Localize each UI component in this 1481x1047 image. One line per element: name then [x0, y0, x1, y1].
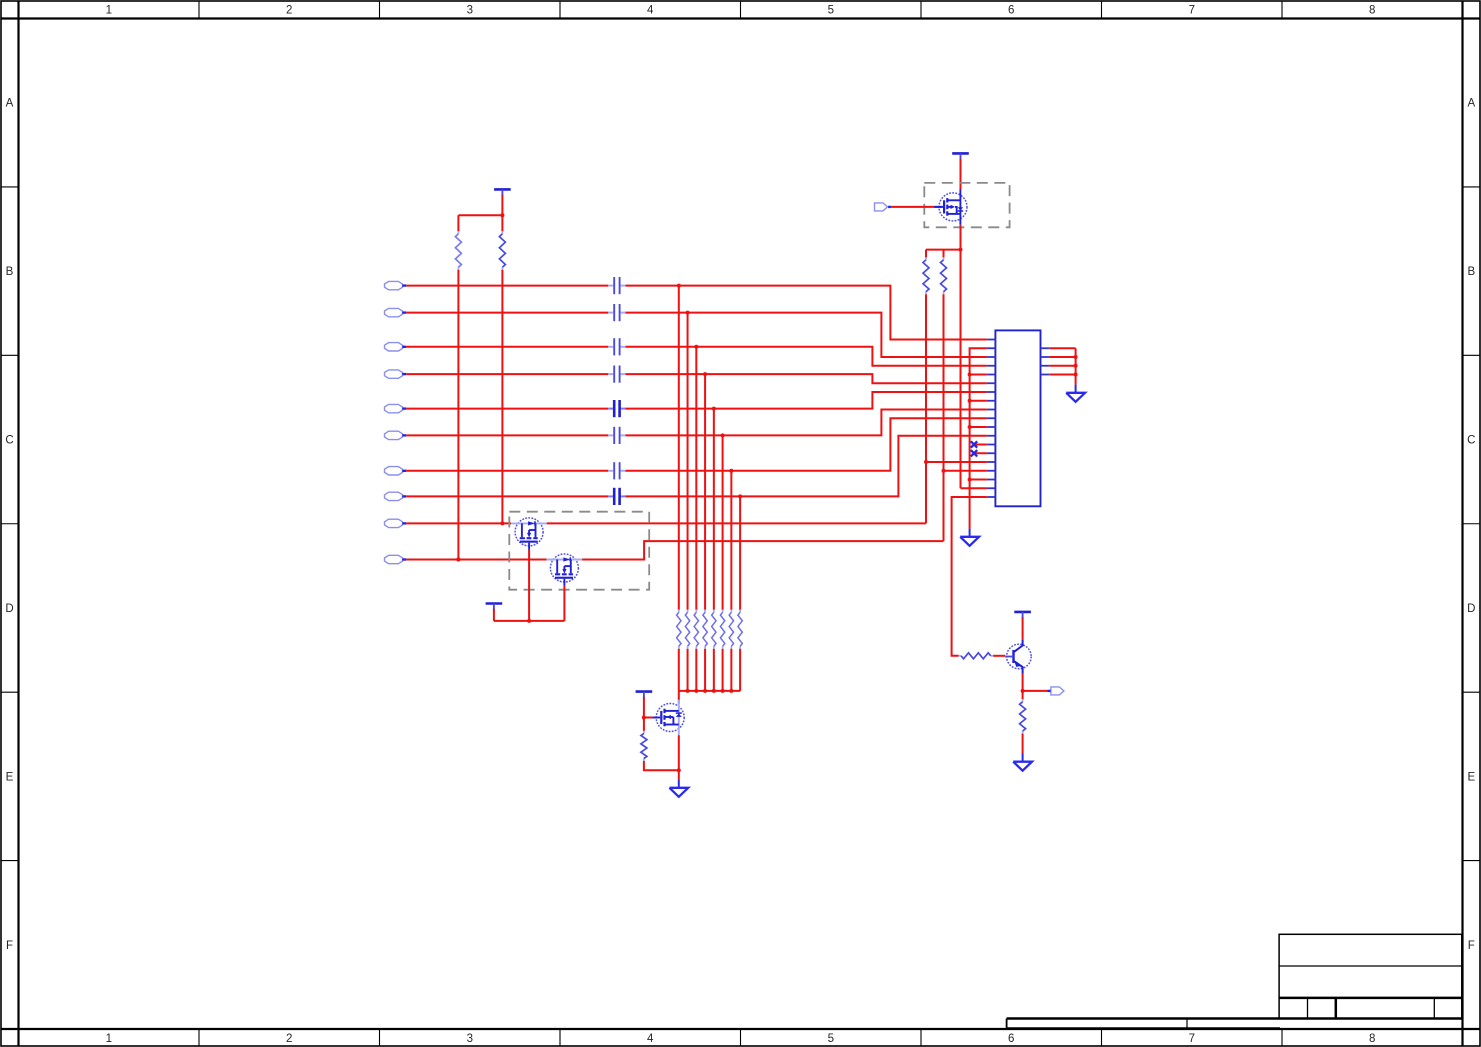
- wire R8 to bus: [687, 649, 689, 691]
- junction row6/pulldown: [721, 433, 725, 437]
- wire flag to Q1 gate: [891, 206, 942, 208]
- wire IC right pins to gnd bus: [1049, 347, 1075, 349]
- wire pin14 stub: [976, 452, 987, 454]
- svg-text:5: 5: [828, 5, 834, 17]
- wire R4 to pin16 riser: [943, 294, 945, 541]
- port J10: [385, 555, 403, 563]
- resistor R8: [687, 610, 689, 613]
- wire row3 pulldown drop: [695, 347, 697, 610]
- mosfet Q1: [939, 193, 967, 221]
- svg-text:1: 1: [106, 1033, 112, 1045]
- ground GND2: [969, 529, 971, 537]
- wire pin11 stub to gnd bus: [970, 426, 987, 428]
- junction row7/pulldown: [729, 469, 733, 473]
- junction bus col3: [694, 689, 698, 693]
- wire row8 to IC pin 12: [626, 436, 987, 497]
- wire pin13 stub: [976, 444, 987, 446]
- resistor R9: [695, 610, 697, 613]
- port J2: [385, 308, 403, 316]
- wire VCC1 stem: [501, 195, 503, 216]
- junction right bus pin3: [1074, 355, 1078, 359]
- svg-text:F: F: [1468, 940, 1475, 952]
- wire to R4: [943, 250, 945, 258]
- wire row2 to cap: [406, 312, 608, 314]
- wire VCC3 to Q1 drain: [960, 159, 962, 190]
- wire to R15: [643, 718, 645, 731]
- capacitor C7: [608, 470, 613, 472]
- wire emitter to flag: [1023, 690, 1048, 692]
- wire to R2: [501, 215, 503, 231]
- wire row8 to cap: [406, 495, 608, 497]
- svg-text:1: 1: [106, 5, 112, 17]
- wire Q2 emitter down: [1022, 674, 1024, 691]
- power bar VCC1: [494, 188, 511, 191]
- wire row4 pulldown drop: [704, 374, 706, 610]
- resistor R15: [643, 731, 645, 734]
- wire to R1: [457, 215, 459, 231]
- wire row6 to cap: [406, 434, 608, 436]
- port J6: [385, 431, 403, 439]
- svg-text:A: A: [6, 98, 14, 110]
- port J3: [385, 343, 403, 351]
- svg-text:3: 3: [467, 5, 473, 17]
- junction right bus pin4: [1074, 364, 1078, 368]
- svg-text:2: 2: [286, 1033, 292, 1045]
- wire pin8 stub to gnd bus: [970, 400, 987, 402]
- svg-text:D: D: [5, 603, 13, 615]
- wire row5 to cap: [406, 408, 608, 410]
- wire R5 to Q2 base: [993, 655, 1005, 657]
- port J8: [385, 492, 403, 500]
- output flag J12: [1051, 687, 1064, 695]
- junction row4/pulldown: [703, 372, 707, 376]
- wire row10 right segment: [582, 541, 944, 559]
- wire right gnd bus: [1075, 348, 1077, 384]
- wire row7 pulldown drop: [730, 471, 732, 610]
- svg-text:A: A: [1467, 98, 1475, 110]
- wire row5 pulldown drop: [713, 409, 715, 610]
- wire row6 pulldown drop: [722, 435, 724, 609]
- wire R6 to ground: [1022, 734, 1024, 754]
- wire pin16 stub: [944, 470, 987, 472]
- wire gate node to M3: [644, 717, 653, 719]
- wire R13 to bus: [730, 649, 732, 691]
- wire pin17 stub to gnd bus: [970, 479, 987, 481]
- junction emitter node: [1021, 689, 1025, 693]
- resistor R3: [925, 257, 927, 260]
- wire pin15 stub: [926, 461, 987, 463]
- junction bus col7: [729, 689, 733, 693]
- wire R2 to row9: [501, 270, 503, 524]
- junction row10/R1 mark: [456, 558, 460, 562]
- wire VCC4 to Q2 collector: [1022, 617, 1024, 639]
- resistor R5: [959, 655, 962, 657]
- resistor R6: [1022, 699, 1024, 702]
- wire pulldown bus: [679, 690, 740, 692]
- no-connect X pin14: [971, 450, 977, 456]
- wire M1 gate down: [528, 549, 530, 621]
- junction row8/pulldown: [738, 494, 742, 498]
- wire row1 to IC pin 1: [626, 286, 987, 340]
- svg-text:8: 8: [1369, 5, 1375, 17]
- dashed box level shifter: [509, 512, 649, 590]
- wire pin5 stub to gnd bus: [970, 374, 987, 376]
- wire pin2 gnd bus: [970, 348, 987, 528]
- wire row5 to IC pin 7: [626, 392, 987, 409]
- svg-text:8: 8: [1369, 1033, 1375, 1045]
- wire row3 to IC pin 4: [626, 347, 987, 366]
- wire R12 to bus: [722, 649, 724, 691]
- junction M1 gate/rail: [527, 619, 531, 623]
- svg-text:C: C: [5, 435, 13, 447]
- junction gnd bus pin11: [968, 425, 972, 429]
- junction row2/pulldown: [686, 311, 690, 315]
- resistor R4: [943, 257, 945, 260]
- port J4: [385, 370, 403, 378]
- capacitor C6: [608, 434, 613, 436]
- svg-text:B: B: [6, 266, 14, 278]
- IC U1 left pin stubs: [987, 340, 996, 498]
- wire R14 to bus: [739, 649, 741, 691]
- wire row1 to cap: [406, 285, 608, 287]
- wire row7 to cap: [406, 470, 608, 472]
- capacitor C8: [608, 495, 613, 497]
- wire VCC1 branch left: [458, 214, 502, 216]
- resistor R14: [739, 610, 741, 613]
- ground GND3: [1022, 754, 1024, 762]
- revision strip box: [1006, 1019, 1008, 1028]
- wire M3 source down: [678, 735, 680, 779]
- resistor R2: [501, 231, 503, 234]
- wire row6 to IC pin 9: [626, 410, 987, 436]
- junction Q1 source split: [959, 248, 963, 252]
- ground GND1: [1075, 385, 1077, 393]
- resistor R11: [713, 610, 715, 613]
- gate flag J11: [875, 203, 888, 211]
- resistor R7: [678, 610, 680, 613]
- capacitor C1: [608, 285, 613, 287]
- capacitor C4: [608, 373, 613, 375]
- junction M3 source/R15: [677, 768, 681, 772]
- wire bus to M3 drain: [678, 691, 680, 704]
- capacitor C2: [608, 312, 613, 314]
- svg-text:6: 6: [1008, 5, 1014, 17]
- wire R3 to pin15 riser: [925, 294, 927, 523]
- junction gnd bus pin17: [968, 478, 972, 482]
- wire to R3: [925, 250, 927, 258]
- wire Q1 source down: [960, 225, 962, 489]
- wire row10 left segment: [406, 559, 546, 561]
- wire to R6: [1022, 691, 1024, 699]
- wire VCC2 stem to rail: [493, 609, 495, 621]
- wire M2 gate down: [563, 585, 565, 621]
- port J1: [385, 281, 403, 289]
- capacitor C5: [608, 408, 613, 410]
- junction bus col5: [712, 689, 716, 693]
- IC U1: [995, 330, 1040, 506]
- transistor Q2: [1007, 644, 1032, 669]
- power bar VCC3: [952, 152, 969, 155]
- wire row4 to cap: [406, 373, 608, 375]
- svg-text:7: 7: [1189, 5, 1195, 17]
- junction row3/pulldown: [694, 345, 698, 349]
- svg-text:D: D: [1467, 603, 1475, 615]
- wire R1 to row10: [457, 270, 459, 560]
- wire row1 pulldown drop: [678, 286, 680, 610]
- junction gnd bus pin5: [968, 373, 972, 377]
- resistor R12: [722, 610, 724, 613]
- junction gnd bus pin8: [968, 399, 972, 403]
- port J5: [385, 404, 403, 412]
- no-connect X pin13: [971, 441, 977, 447]
- svg-text:E: E: [6, 771, 14, 783]
- wire R7 to bus: [678, 649, 680, 691]
- wire R9 to bus: [695, 649, 697, 691]
- junction right bus pin5: [1074, 373, 1078, 377]
- junction bus col6: [721, 689, 725, 693]
- wire R15 to source rail: [644, 761, 679, 770]
- svg-text:B: B: [1467, 266, 1475, 278]
- junction R4/pin16: [942, 469, 946, 473]
- wire row2 to IC pin 3: [626, 313, 987, 357]
- wire row4 to IC pin 6: [626, 374, 987, 383]
- resistor R13: [730, 610, 732, 613]
- power bar VCC4: [1014, 611, 1031, 614]
- junction row5/pulldown: [712, 407, 716, 411]
- svg-text:7: 7: [1189, 1033, 1195, 1045]
- svg-text:E: E: [1467, 771, 1475, 783]
- wire row7 to IC pin 10: [626, 418, 987, 471]
- port J9: [385, 519, 403, 527]
- junction VCC1 split: [500, 213, 504, 217]
- svg-text:6: 6: [1008, 1033, 1014, 1045]
- wire row8 pulldown drop: [739, 496, 741, 609]
- wire row9 right segment: [546, 522, 926, 524]
- wire row2 pulldown drop: [687, 313, 689, 610]
- wire row3 to cap: [406, 346, 608, 348]
- power bar VCC2: [486, 602, 503, 605]
- dashed box Q1: [924, 183, 1009, 227]
- svg-text:2: 2: [286, 5, 292, 17]
- junction R3/pin15: [924, 460, 928, 464]
- wire branch to pullup resistors: [926, 249, 961, 251]
- mosfet M2: [550, 554, 578, 582]
- junction bus col2: [686, 689, 690, 693]
- svg-text:5: 5: [828, 1033, 834, 1045]
- title block: [1007, 934, 1462, 1028]
- IC U1 right pin stubs: [1041, 347, 1050, 349]
- svg-text:C: C: [1467, 435, 1475, 447]
- wire R10 to bus: [704, 649, 706, 691]
- junction row1/pulldown: [677, 284, 681, 288]
- junction R2/row9: [500, 521, 504, 525]
- junction bus col4: [703, 689, 707, 693]
- wire gate rail: [494, 620, 565, 622]
- mosfet M3: [656, 704, 684, 732]
- ground GND4: [678, 780, 680, 788]
- svg-text:4: 4: [647, 5, 654, 17]
- power bar VCC5: [636, 690, 653, 693]
- resistor R1: [457, 231, 459, 234]
- wire row9 left segment: [406, 522, 511, 524]
- wire R11 to bus: [713, 649, 715, 691]
- capacitor C3: [608, 346, 613, 348]
- wire pin19 to base resistor: [952, 497, 987, 656]
- resistor R10: [704, 610, 706, 613]
- junction R1/row10: [456, 558, 460, 562]
- svg-text:3: 3: [467, 1033, 473, 1045]
- svg-text:F: F: [6, 940, 13, 952]
- wire pin18 stub: [961, 487, 987, 489]
- wire VCC5 to M3 gate: [643, 697, 645, 718]
- svg-text:4: 4: [647, 1033, 654, 1045]
- junction M3 gate node: [642, 716, 646, 720]
- mosfet M1: [515, 518, 543, 546]
- port J7: [385, 467, 403, 475]
